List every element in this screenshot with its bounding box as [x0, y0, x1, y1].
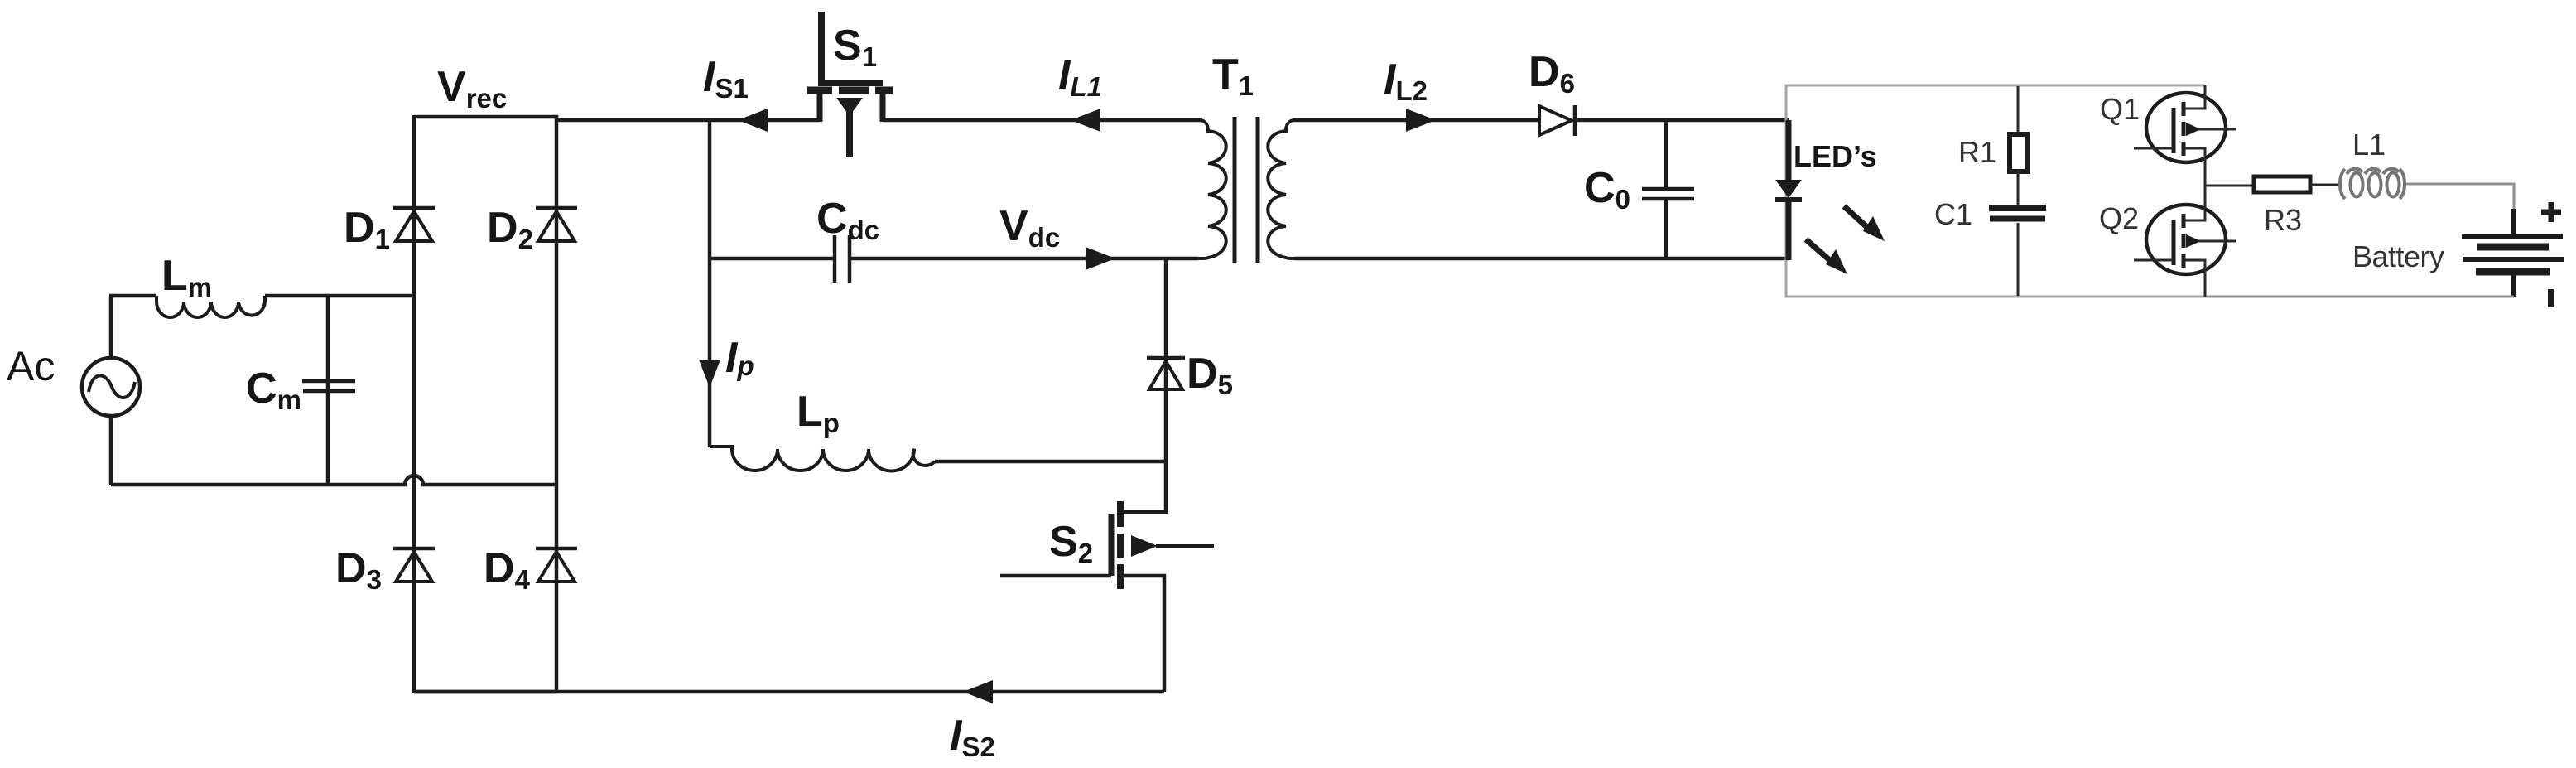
- svg-text:R3: R3: [2264, 203, 2302, 237]
- transistor S2: [1000, 501, 1214, 692]
- resistor R3: [2254, 176, 2310, 192]
- LED light arrow lower: [1806, 239, 1847, 274]
- wire AC bottom with hop: [111, 476, 558, 485]
- wire bridge to S1: [556, 118, 820, 123]
- node vertical wire left of Cdc: [708, 120, 712, 447]
- svg-text:Battery: Battery: [2352, 239, 2444, 273]
- diode D4: [536, 548, 577, 582]
- svg-text:L1: L1: [2352, 128, 2386, 162]
- svg-text:R1: R1: [1958, 135, 1996, 169]
- inductor L1: [2340, 169, 2405, 199]
- diode D3: [393, 548, 435, 582]
- arrow IL1: [1071, 109, 1100, 132]
- wire R3 to L1: [2310, 184, 2340, 186]
- battery: [2462, 209, 2564, 297]
- wire Lp to D5 leg: [935, 460, 1166, 464]
- diode D5: [1147, 258, 1185, 514]
- diode D6: [1539, 105, 1575, 136]
- bridge left leg: [412, 115, 416, 693]
- ac source Ac: [82, 296, 140, 485]
- transistor Q1: [2134, 85, 2236, 186]
- wire secondary bottom to LED box: [1294, 257, 1789, 261]
- transformer T1 primary winding: [1197, 120, 1226, 258]
- arrow Vdc: [1086, 247, 1115, 270]
- svg-text:LED’s: LED’s: [1794, 139, 1877, 173]
- wire L1 to battery top: [2406, 184, 2514, 210]
- wire S1 to transformer: [883, 118, 1202, 123]
- LED module box: [1786, 85, 2204, 297]
- bottom rail wire: [414, 690, 1164, 694]
- transistor S1: [807, 12, 893, 157]
- battery minus terminal label: [2548, 289, 2554, 307]
- transformer T1 secondary winding: [1268, 120, 1298, 258]
- transformer T1 core: [1235, 117, 1258, 263]
- resistor R1: [2010, 86, 2027, 205]
- diode D2: [536, 208, 577, 241]
- wire Q1Q2 midpoint to R3: [2205, 185, 2254, 187]
- wire secondary top to D6: [1293, 118, 1539, 123]
- wire Lm to bridge: [265, 294, 416, 298]
- wire D6 to LED box: [1577, 118, 1789, 123]
- svg-text:Q2: Q2: [2099, 201, 2139, 235]
- bridge right leg: [555, 115, 559, 693]
- battery plus terminal label: [2541, 202, 2561, 222]
- svg-text:Q1: Q1: [2100, 92, 2140, 126]
- capacitor Cdc: [710, 235, 1198, 283]
- svg-text:Ac: Ac: [7, 343, 55, 389]
- wire AC top: [109, 294, 156, 298]
- LED light arrow upper: [1844, 206, 1885, 241]
- bottom return rail grey: [1786, 296, 2514, 298]
- diode D1: [393, 208, 435, 241]
- svg-text:C1: C1: [1934, 197, 1972, 231]
- LED string: [1775, 120, 1802, 260]
- inductor Lm: [156, 296, 265, 317]
- capacitor Cm: [302, 296, 355, 485]
- arrow IL2: [1406, 109, 1436, 132]
- capacitor C1: [1989, 208, 2046, 296]
- capacitor C0: [1642, 120, 1694, 258]
- arrow Ip: [699, 360, 720, 388]
- arrow IS1: [738, 109, 768, 132]
- transistor Q2: [2134, 186, 2236, 297]
- bridge top rail Vrec: [414, 117, 556, 120]
- arrow IS2: [963, 680, 993, 703]
- bridge bottom rail: [414, 690, 556, 694]
- inductor Lp: [710, 447, 935, 471]
